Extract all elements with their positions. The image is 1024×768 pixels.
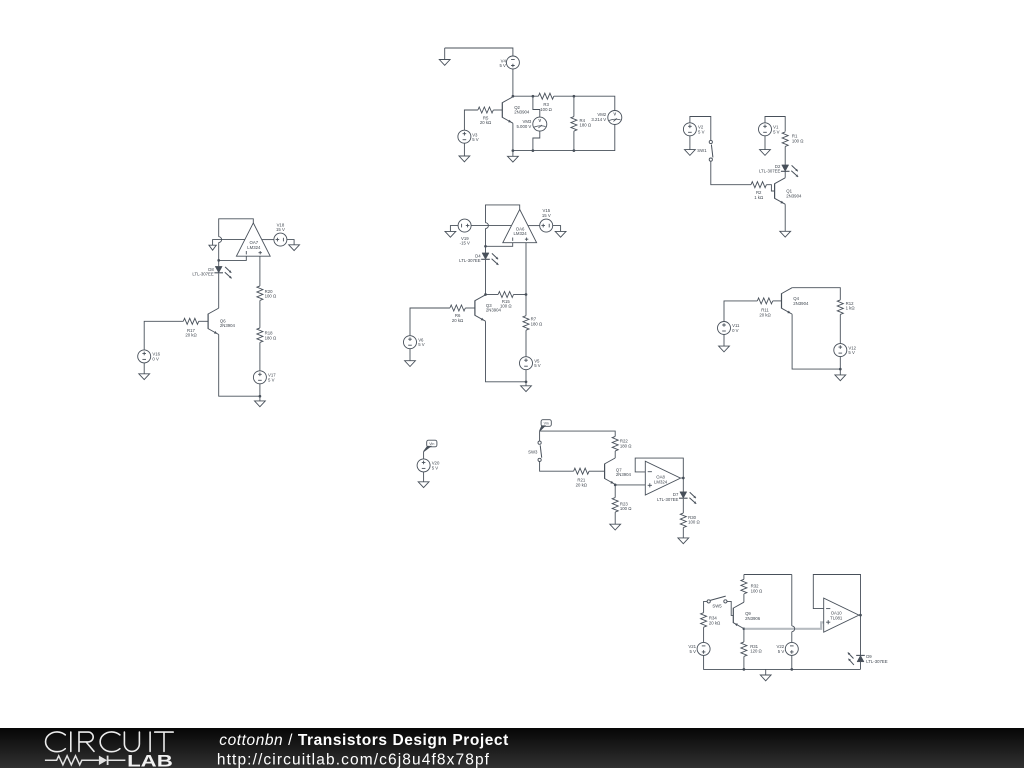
CircuitLab logo LAB (127, 751, 173, 768)
wire emitter node to R31 (743, 629, 745, 642)
resistor R1 100 Ohm (782, 132, 788, 147)
ground below V16 (139, 374, 150, 380)
label SW1 (697, 148, 707, 153)
svg-text:2N3904: 2N3904 (616, 472, 632, 477)
ground below block3 rail (255, 401, 266, 407)
svg-text:2N3904: 2N3904 (220, 323, 236, 328)
svg-text:0 V: 0 V (732, 328, 739, 333)
svg-text:5 V: 5 V (848, 350, 855, 355)
label V4 5 V (499, 58, 506, 68)
wire V19 left to ground (450, 226, 458, 232)
label D2 LTL-307EE (759, 164, 781, 174)
svg-text:100 Ω: 100 Ω (620, 506, 632, 511)
svg-text:LTL-307EE: LTL-307EE (192, 272, 214, 277)
node emitter ground junction (512, 149, 515, 152)
wire V6 ground stub (409, 349, 411, 361)
wire R5 to Q2 base (493, 109, 502, 111)
svg-text:100 Ω: 100 Ω (751, 588, 763, 593)
resistor R15 100 Ohm (498, 292, 513, 298)
svg-text:5 V: 5 V (499, 63, 506, 68)
wire R34 to V21 (703, 627, 705, 642)
svg-text:20 kΩ: 20 kΩ (759, 312, 771, 317)
op-amp OA8 LM324 (645, 461, 680, 495)
resistor R6 20k (450, 305, 465, 311)
label SW3 (528, 449, 538, 454)
svg-text:2N3904: 2N3904 (486, 308, 502, 313)
label R6 20 kOhm (452, 313, 464, 323)
wire V21 to bottom rail (704, 655, 861, 669)
wire R31 bottom lead (743, 657, 745, 670)
label R23 100 (620, 501, 632, 511)
label VM3 5.000 V (516, 119, 531, 129)
label D4 LTL-307EE (459, 253, 481, 263)
flag Vin at SW3 (540, 420, 552, 431)
node VM3 tap on top rail (532, 95, 535, 98)
svg-text:100 Ω: 100 Ω (540, 107, 552, 112)
wire collector node to R15 (486, 294, 499, 296)
svg-text:20 kΩ: 20 kΩ (576, 482, 588, 487)
wire R6 to Q3 base (465, 307, 475, 309)
voltmeter VM2 (608, 111, 622, 125)
node rail at V22 (790, 668, 793, 671)
ground at OA7 V- pin (209, 245, 216, 250)
wire R32 top lead (743, 575, 745, 580)
wire node to D8 (218, 260, 220, 266)
resistor R7 180 Ohm (523, 316, 529, 331)
wire emitter ground stub (512, 151, 514, 157)
label D9 LTL-307EE (866, 654, 888, 664)
wire Q9 base path (727, 601, 733, 615)
wire feedback down to minus node (218, 243, 220, 261)
voltage source V15 15V (540, 219, 553, 232)
label OA7 LM324 (247, 240, 261, 250)
svg-text:5 V: 5 V (418, 342, 425, 347)
label R1 100 (792, 134, 804, 144)
voltage source V2 5V (683, 123, 696, 136)
wire R4 top lead (573, 96, 575, 116)
label R12 1 kOhm (846, 301, 856, 311)
transistor Q1 2N3904 (775, 178, 786, 204)
svg-text:cottonbn / Transistors Design: cottonbn / Transistors Design Project (219, 732, 509, 749)
wire SW1 to R2 (711, 161, 751, 185)
label V20 5 V (432, 461, 440, 471)
node Q9 emitter junction (743, 627, 746, 630)
node bottom rail block4 (525, 380, 528, 383)
wire node to D4 (485, 246, 487, 253)
transistor Q4 2N3904 (782, 288, 793, 314)
op-amp OA10 TL081 (824, 598, 859, 632)
wire V18 to ground (287, 240, 294, 245)
svg-text:Vin: Vin (544, 422, 549, 426)
wire R22 to Q7 collector (614, 451, 616, 458)
wire R3 to R4 top (554, 96, 615, 110)
label R15 100 (500, 299, 512, 309)
svg-text:LTL-307EE: LTL-307EE (459, 258, 481, 263)
resistor R12 1k (837, 300, 843, 315)
wire R18 to V17 (259, 343, 261, 371)
label V5 5 V (534, 358, 541, 368)
resistor R34 20k (701, 613, 707, 628)
wire top rail from ground to V4 (445, 48, 513, 56)
LED D4 LTL-307EE (481, 253, 498, 265)
label V16 0 V (152, 352, 160, 362)
wire V2 to SW1 (690, 117, 711, 141)
ground below V2 (685, 150, 696, 156)
svg-text:180 Ω: 180 Ω (265, 335, 277, 340)
node bottom rail at R4 (573, 149, 576, 152)
wire R1 to D2 (784, 147, 786, 165)
label R11 20 kOhm (759, 308, 771, 318)
wire Q1 emitter to ground (784, 204, 786, 231)
node rail at R31 (743, 668, 746, 671)
wire flag to V20 (423, 452, 425, 459)
LED D7 LTL-307EE (679, 492, 696, 504)
svg-text:LM324: LM324 (247, 245, 261, 250)
wire emitter node to plus input (615, 484, 645, 486)
label V3 5 V (472, 132, 479, 142)
label V15 15 V (542, 208, 551, 218)
wire OA7 V- pin to ground (213, 240, 245, 246)
label V1 5 V (773, 125, 780, 135)
label D7 LTL-307EE (657, 492, 679, 502)
wire Q3 emitter to rail (486, 321, 527, 382)
voltage source V19 -15V (458, 219, 471, 232)
svg-text:Vin: Vin (429, 442, 434, 446)
label Q1 2N3904 (786, 189, 802, 199)
ground on bottom rail block7 (760, 675, 771, 681)
svg-text:5.000 V: 5.000 V (516, 124, 531, 129)
wire Q4 collector to R12 (792, 288, 840, 300)
wire V22 to bottom rail (791, 655, 793, 669)
svg-text:LAB: LAB (127, 751, 173, 768)
svg-text:2N3904: 2N3904 (793, 301, 809, 306)
svg-text:2N3904: 2N3904 (786, 193, 802, 198)
switch SW1 (709, 140, 713, 161)
wire emitter node to R23 (614, 485, 616, 498)
svg-text:100 Ω: 100 Ω (500, 304, 512, 309)
wire R2 to Q1 base (766, 185, 774, 191)
label R32 100 (751, 584, 763, 594)
label R22 180 (620, 439, 632, 449)
resistor R4 180 Ohm (571, 117, 577, 132)
footer url text (217, 751, 490, 768)
label Q7 2N3904 (616, 467, 632, 477)
wire R11 to Q4 base (773, 300, 782, 302)
wire OA6 output feedback top (486, 205, 520, 223)
label R34 20 kOhm (709, 616, 721, 626)
svg-text:2N3906: 2N3906 (745, 616, 761, 621)
ground below V11 (719, 346, 730, 352)
voltage source V3 5V (458, 130, 471, 143)
footer title text (219, 732, 509, 749)
voltage source V12 5V (834, 344, 847, 357)
wire OA10 feedback (813, 575, 860, 616)
svg-text:100 Ω: 100 Ω (792, 138, 804, 143)
resistor R22 180 Ohm (612, 436, 618, 451)
wire OA8 output stub (681, 477, 684, 479)
wire OA10 output stub (859, 614, 861, 616)
svg-text:LM324: LM324 (514, 231, 528, 236)
label V22 5 V (777, 644, 785, 654)
resistor R11 20k (757, 298, 772, 304)
svg-text:20 kΩ: 20 kΩ (709, 620, 721, 625)
svg-text:5 V: 5 V (534, 363, 541, 368)
voltage source V17 5V (253, 371, 266, 384)
voltage source V5 5V (520, 357, 533, 370)
svg-text:5 V: 5 V (268, 377, 275, 382)
svg-text:180 Ω: 180 Ω (620, 443, 632, 448)
voltage source V1 5V (759, 123, 772, 136)
label R18 180 (265, 331, 277, 341)
wire D4 to collector node (485, 260, 487, 295)
node feedback minus junction b4 (484, 245, 487, 248)
node OA10 output (859, 614, 862, 617)
ground top-left of block1 (439, 60, 450, 66)
svg-text:5 V: 5 V (432, 465, 439, 470)
label R7 180 (531, 317, 543, 327)
wire VM2 bottom to rail (513, 125, 615, 151)
svg-text:180 Ω: 180 Ω (580, 123, 592, 128)
wire V20 ground stub (423, 472, 425, 482)
node collector Q2 / V4 (512, 95, 515, 98)
wire Q2 emitter to rail (512, 123, 514, 150)
svg-text:100 Ω: 100 Ω (265, 294, 277, 299)
wire plus input to R20 (259, 256, 261, 286)
voltage source V21 5V (697, 642, 710, 655)
wire output to D7 (682, 478, 684, 492)
label V21 5 V (688, 644, 696, 654)
wire OA6 V+ pin to V15 (528, 225, 540, 227)
wire R23 to ground (614, 512, 616, 524)
label R5 20 kOhm (480, 115, 492, 125)
wire R15 to plus node (514, 294, 527, 296)
wire R32 to Q9 collector (743, 594, 745, 602)
label Q9 2N3906 (745, 611, 761, 621)
node bottom rail block3 (259, 395, 262, 398)
ground below R30 (678, 538, 689, 544)
wire rail ground stub block3 (259, 396, 261, 401)
voltage source V6 5V (404, 336, 417, 349)
svg-text:5 V: 5 V (778, 649, 785, 654)
wire R30 to ground (682, 528, 684, 538)
label V6 5 V (418, 337, 425, 347)
svg-text:http://circuitlab.com/c6j8u4f8: http://circuitlab.com/c6j8u4f8x78pf (217, 751, 490, 768)
svg-text:0 V: 0 V (152, 356, 159, 361)
resistor R2 1k (751, 182, 766, 188)
resistor R32 100 Ohm (741, 579, 747, 594)
ground below Q1 (780, 231, 791, 237)
label OA6 LM324 (514, 226, 528, 236)
ground below V3 (459, 156, 470, 162)
switch SW3 (538, 441, 542, 461)
footer bar (0, 728, 1024, 768)
voltage source V11 0V (718, 322, 731, 335)
svg-text:180 Ω: 180 Ω (531, 321, 543, 326)
LED D9 LTL-307EE (848, 653, 865, 665)
label R30 100 (688, 515, 700, 525)
node R4 top (573, 95, 576, 98)
label V12 5 V (848, 345, 856, 355)
ground below R23 (610, 524, 621, 530)
label R4 180 (580, 118, 592, 128)
ground below V20 (418, 482, 429, 488)
svg-text:15 V: 15 V (542, 213, 551, 218)
wire V12 to rail node (839, 357, 841, 370)
label R21 20 kOhm (576, 478, 588, 488)
label Q4 2N3904 (793, 296, 809, 306)
wire output to D9 (860, 615, 862, 655)
label R20 100 (265, 289, 277, 299)
svg-text:SW5: SW5 (712, 604, 722, 609)
ground below V6 (405, 361, 416, 367)
node bottom rail block5 (839, 368, 842, 371)
svg-text:V: V (538, 118, 541, 123)
node Q7 emitter junction (614, 484, 617, 487)
ground right of V18 (289, 245, 300, 251)
wire V5 to rail node (525, 370, 527, 382)
svg-text:120 Ω: 120 Ω (750, 649, 762, 654)
svg-text:V: V (613, 112, 616, 117)
transistor Q3 2N3904 (475, 295, 486, 321)
svg-text:20 kΩ: 20 kΩ (480, 120, 492, 125)
label R2 1 kOhm (754, 190, 764, 200)
resistor R31 120 Ohm (741, 642, 747, 657)
label V19 -15 V (460, 236, 470, 246)
wire V2 ground stub (689, 136, 691, 150)
resistor R5 20k (478, 107, 493, 113)
svg-text:20 kΩ: 20 kΩ (185, 333, 197, 338)
label V18 15 V (276, 222, 285, 232)
wire Q6 emitter to rail (219, 335, 260, 397)
node plus input junction b4 (525, 293, 528, 296)
label OA8 LM324 (654, 475, 668, 485)
wire hop over plus net (792, 626, 795, 632)
transistor Q6 2N3904 (208, 308, 219, 334)
voltage source V18 15V (274, 233, 287, 246)
label SW5 (712, 604, 722, 609)
ground below block4 rail (521, 386, 532, 392)
voltage source V22 5V (785, 642, 798, 655)
node Q3 collector junction (484, 293, 487, 296)
wire hop over V19 wire (486, 223, 489, 229)
wire rail to V22 upper (791, 575, 793, 626)
label Q2 2N3904 (514, 105, 530, 115)
voltage source V20 5V (417, 459, 430, 472)
svg-text:SW3: SW3 (528, 449, 538, 454)
wire VM3 branch top (533, 96, 540, 117)
label R3 100 (540, 102, 552, 112)
LED D8 LTL-307EE (214, 266, 231, 278)
wire Q2 collector lead (512, 95, 514, 98)
CircuitLab logo resistor-diode icon (45, 756, 126, 765)
resistor R21 20k (574, 468, 589, 474)
wire SW3 to R21 (540, 462, 574, 472)
CircuitLab logo CIRCUIT (46, 732, 174, 752)
wire D7 to R30 (682, 499, 684, 513)
ground below Q2 emitter (508, 156, 519, 162)
svg-text:-15 V: -15 V (460, 241, 470, 246)
label R31 120 (750, 644, 762, 654)
resistor R30 100 Ohm (680, 513, 686, 528)
voltage source V4 5V (506, 56, 519, 69)
wire V4 to collector node (512, 69, 514, 96)
svg-text:TL081: TL081 (830, 615, 843, 620)
wire minus input b4 (486, 243, 513, 247)
label V2 5 V (698, 125, 705, 135)
svg-text:LTL-307EE: LTL-307EE (657, 497, 679, 502)
node OA8 output (682, 477, 685, 480)
wire R17 to Q6 base (199, 320, 208, 322)
flag Vin at V20 (424, 440, 437, 451)
node bottom rail at VM3 (532, 149, 535, 152)
label Q6 2N3904 (220, 318, 236, 328)
op-amp OA7 LM324 (236, 223, 270, 256)
voltage source V16 0V (138, 350, 151, 363)
transistor Q9 2N3906 (733, 602, 744, 628)
wire R21 to Q7 base (589, 470, 605, 472)
ground below block5 rail (835, 375, 846, 381)
wire top rail block7 (744, 574, 792, 576)
wire V15 to ground (553, 226, 561, 232)
wire V11 to R11 (724, 301, 757, 322)
svg-text:15 V: 15 V (276, 227, 285, 232)
resistor R3 100 Ohm (538, 93, 553, 99)
svg-text:SW1: SW1 (697, 148, 707, 153)
svg-text:5 V: 5 V (472, 137, 479, 142)
wire D8 to Q6 collector (218, 273, 220, 308)
wire Vin rail to R22 (540, 431, 616, 436)
wire V3 to R5 (464, 110, 478, 130)
wire V17 to bottom node (259, 384, 261, 396)
resistor R20 100 Ohm (257, 286, 263, 301)
wire R7 to V5 (525, 330, 527, 357)
wire V1 to R1 (765, 117, 785, 132)
transistor Q2 2N3904 (502, 97, 513, 123)
label V11 0 V (732, 323, 740, 333)
wire hop over V- wire (219, 237, 222, 243)
wire OA8 feedback (635, 458, 683, 478)
transistor Q7 2N3904 (605, 458, 616, 484)
svg-text:5 V: 5 V (698, 129, 705, 134)
ground left of V19 (445, 231, 456, 237)
svg-text:100 Ω: 100 Ω (688, 520, 700, 525)
wire feedback down to minus node b4 (485, 229, 487, 247)
wire minus input (219, 256, 247, 260)
voltmeter VM3 (533, 117, 547, 131)
wire collector node to R3 (513, 95, 539, 97)
wire D9 to bottom rail (860, 662, 862, 670)
wire net to OA10 plus input (745, 622, 824, 628)
wire rail to SW3 (539, 431, 541, 441)
wire SW5 to R34 (704, 601, 708, 612)
wire D2 to Q1 collector (784, 171, 786, 178)
svg-text:2N3904: 2N3904 (514, 110, 530, 115)
wire R20 to R18 (259, 301, 261, 328)
wire V3 bottom stub (463, 143, 465, 156)
svg-text:1 kΩ: 1 kΩ (846, 306, 856, 311)
wire rail ground stub b5 (839, 369, 841, 375)
switch SW5 (707, 596, 727, 603)
wire OA7 V+ pin to V18 (262, 239, 274, 241)
resistor R23 100 Ohm (612, 498, 618, 513)
label Q3 2N3904 (486, 303, 502, 313)
wire V11 ground stub (723, 335, 725, 347)
label D8 LTL-307EE (192, 267, 214, 277)
label OA10 TL081 (830, 611, 843, 621)
svg-text:LTL-307EE: LTL-307EE (866, 659, 888, 664)
wire R12 to V12 (839, 315, 841, 344)
svg-text:LM324: LM324 (654, 479, 668, 484)
